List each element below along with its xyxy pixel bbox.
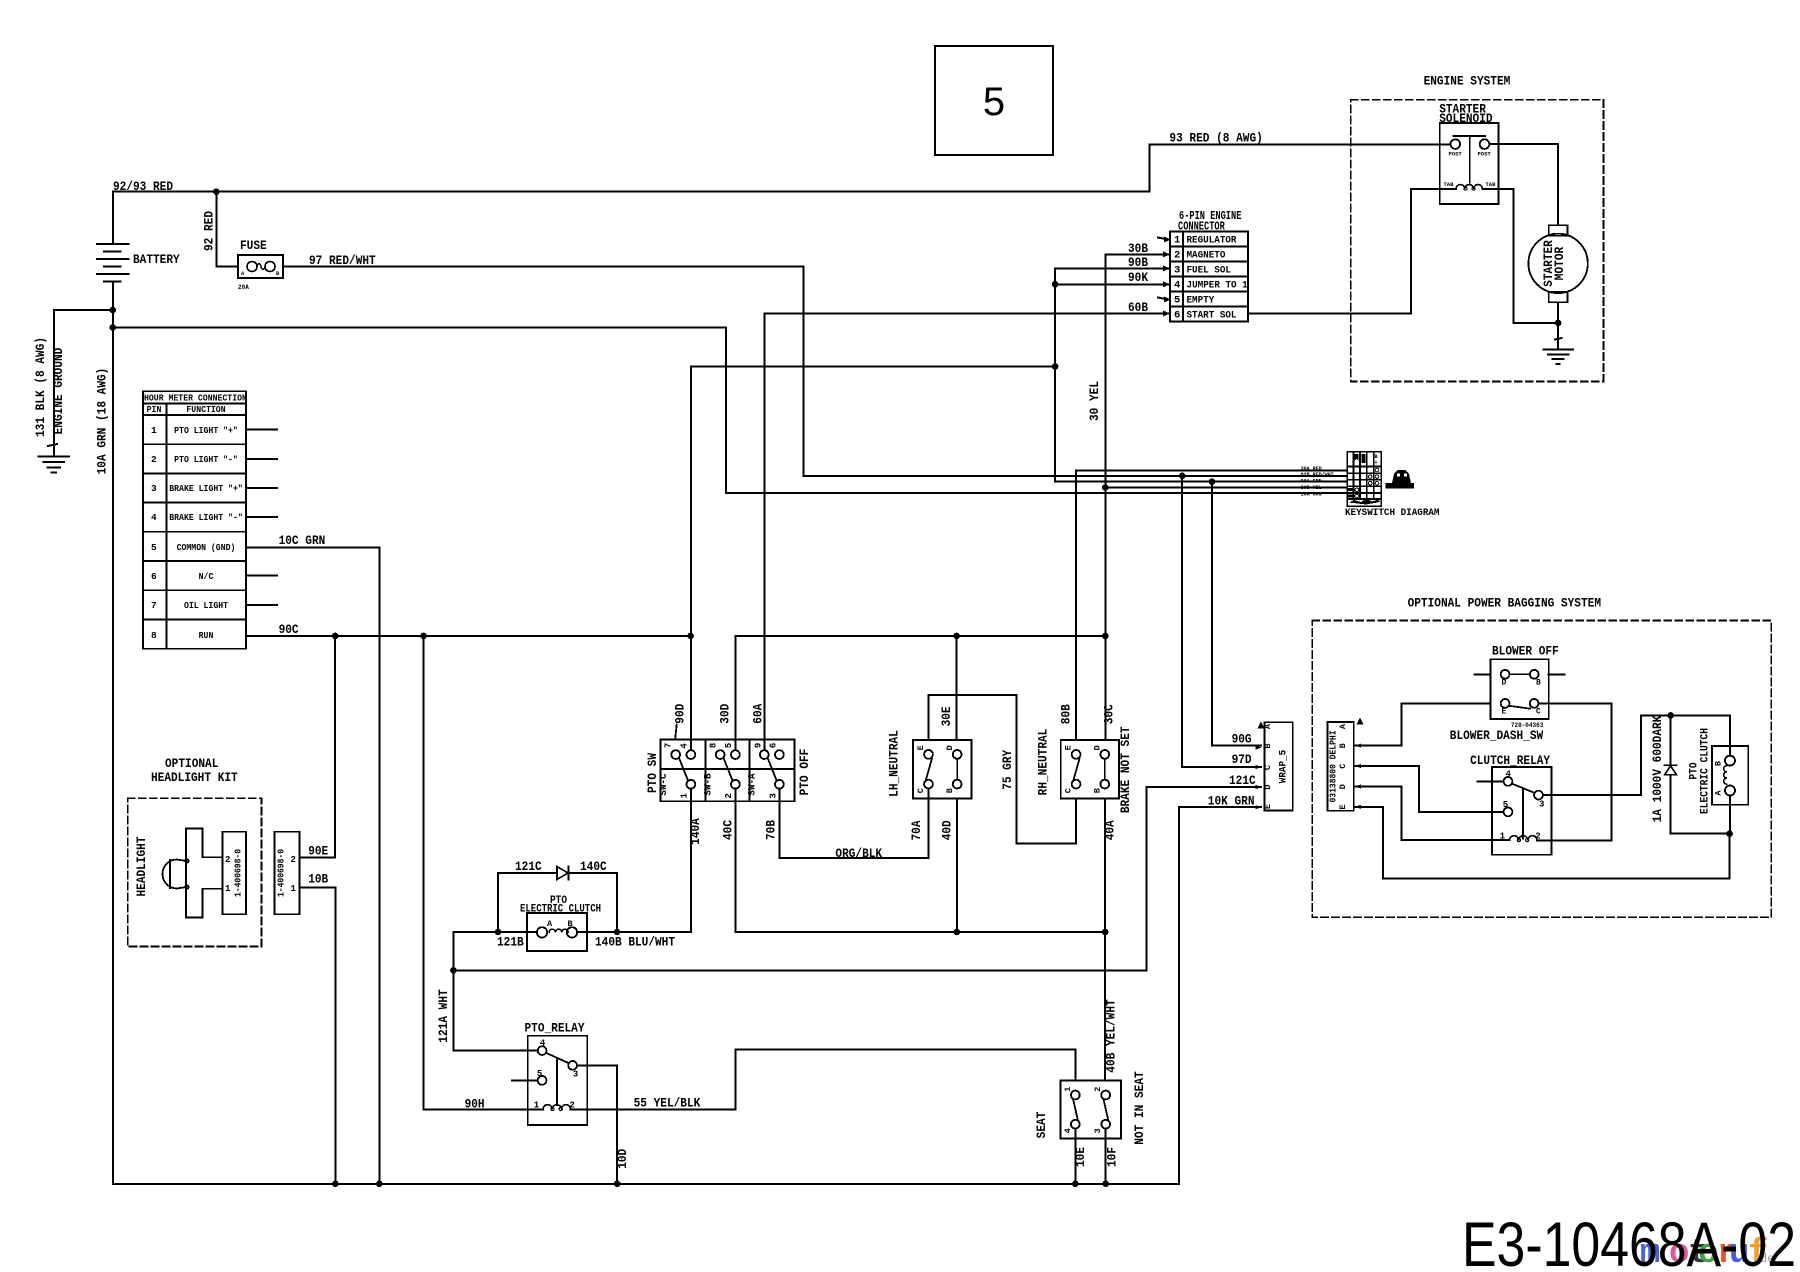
svg-text:BRAKE NOT SET: BRAKE NOT SET (1118, 726, 1133, 813)
svg-text:E: E (1064, 745, 1074, 750)
svg-text:REGULATOR: REGULATOR (1187, 235, 1238, 247)
headlight lamp DS1 (163, 829, 223, 918)
svg-text:BATTERY: BATTERY (133, 252, 180, 267)
wire 55 YEL/BLK (relay coil pin 2 to seat pin 1) (571, 1050, 1076, 1111)
wire 40A / 40B YEL/WHT (RH pin B down to seat pin 2) (1103, 798, 1119, 1080)
svg-text:121B: 121B (497, 935, 524, 950)
svg-text:5: 5 (1503, 800, 1508, 810)
wire 121A WHT (down to PTO relay pin 4) (436, 970, 538, 1050)
svg-text:B: B (1092, 788, 1102, 793)
node: keyswitch line3 junction 90G (1209, 478, 1216, 485)
svg-text:SW-C: SW-C (658, 773, 670, 796)
node: 90 net junction 90K (1052, 281, 1059, 288)
svg-text:1-400698-0: 1-400698-0 (234, 849, 244, 897)
battery B1 (97, 192, 129, 310)
svg-text:A: A (1714, 790, 1724, 796)
node: 90C junction to headlight 90E (332, 633, 339, 640)
PTO switch S1 assembly (661, 725, 795, 802)
engine system dashed enclosure (1351, 74, 1604, 382)
svg-text:90K: 90K (1128, 270, 1148, 285)
svg-text:30E: 30E (939, 706, 954, 726)
svg-text:BRAKE LIGHT "-": BRAKE LIGHT "-" (169, 512, 243, 523)
clutch relay K3 (1470, 753, 1552, 855)
wire 10B (headlight ground return) (300, 872, 336, 1184)
svg-text:92 RED: 92 RED (202, 211, 217, 251)
wire 92 RED (down to fuse) (202, 192, 239, 267)
svg-text:A: A (241, 270, 245, 277)
svg-text:2: 2 (724, 793, 734, 798)
svg-text:30 YEL: 30 YEL (1087, 381, 1102, 421)
svg-text:WRAP_5: WRAP_5 (1278, 750, 1290, 783)
key icon (1386, 470, 1415, 489)
svg-text:C: C (1536, 707, 1541, 716)
svg-text:4: 4 (1063, 1128, 1073, 1133)
node: 30 net junction at 30 YEL vertical (1102, 633, 1109, 640)
svg-text:30C: 30C (1101, 704, 1116, 724)
svg-text:TAB: TAB (1486, 181, 1497, 188)
svg-text:A: A (547, 919, 553, 929)
wire 60B into solenoid left TAB (1248, 189, 1440, 314)
svg-text:10A GRN (18 AWG): 10A GRN (18 AWG) (95, 368, 110, 475)
wire 140A (PTO SW pin1 to clutch) (688, 789, 703, 932)
svg-text:D: D (1338, 784, 1348, 789)
svg-text:N/C: N/C (199, 571, 214, 582)
svg-text:1: 1 (291, 884, 297, 894)
wire 90C (hour meter RUN) (246, 622, 691, 637)
svg-text:10F: 10F (1105, 1147, 1120, 1167)
fuse F1 20A (238, 238, 283, 291)
wire 30B / 30 YEL (engine connector pin2 to 30 net) (1087, 241, 1170, 636)
wire delphi D to clutch relay coil pin 1 (1354, 787, 1510, 840)
wire clutch B net to bagging clutch pin B (1671, 715, 1730, 756)
svg-text:1: 1 (151, 425, 157, 436)
svg-text:70B: 70B (764, 820, 779, 840)
svg-text:CLUTCH_RELAY: CLUTCH_RELAY (1470, 753, 1550, 768)
svg-text:5: 5 (151, 542, 157, 553)
wire 90K (engine connector pin4) (1055, 270, 1170, 285)
svg-text:4: 4 (151, 512, 157, 523)
wire delphi E to bagging clutch A (1354, 807, 1730, 879)
svg-text:90D: 90D (673, 704, 688, 724)
svg-text:POST: POST (1449, 151, 1463, 158)
wire 92/93 RED (battery + to fuse tee and engine) (113, 179, 1149, 194)
hour meter pin stubs (246, 430, 277, 605)
node: 40 net junction 40D (954, 929, 961, 936)
svg-text:FUNCTION: FUNCTION (186, 404, 225, 415)
svg-text:MAGNETO: MAGNETO (1187, 250, 1226, 262)
svg-text:SEAT: SEAT (1034, 1111, 1049, 1138)
svg-text:75 GRY: 75 GRY (1000, 750, 1015, 790)
node: battery minus junction to engine ground (110, 307, 117, 314)
svg-text:B: B (1536, 678, 1541, 687)
wire 40C (PTO SW pin2 to seat circuit) (721, 789, 1106, 932)
svg-text:6: 6 (768, 743, 778, 748)
wire 97D (keyswitch line to WRAP_5 pin C) (1182, 476, 1261, 767)
seat switch S4 (1061, 1080, 1121, 1138)
svg-text:8: 8 (151, 630, 157, 641)
svg-text:4: 4 (679, 743, 689, 749)
svg-text:121C: 121C (515, 859, 542, 874)
svg-text:START SOL: START SOL (1187, 310, 1237, 322)
svg-text:B: B (1714, 761, 1724, 766)
svg-text:TAB: TAB (1444, 181, 1455, 188)
svg-text:1A 1000V 600DARK: 1A 1000V 600DARK (1650, 715, 1665, 822)
node: bus junction 10F (1102, 1181, 1109, 1188)
svg-text:20A: 20A (238, 284, 249, 291)
svg-text:40D: 40D (940, 820, 955, 840)
svg-text:COMMON (GND): COMMON (GND) (177, 542, 236, 553)
wire 90B (engine connector pin3) (1055, 255, 1170, 270)
node: starter motor ground junction (1555, 320, 1562, 327)
svg-text:30B YEL: 30B YEL (1301, 485, 1322, 491)
wire battery minus down to ground bus (112, 310, 114, 1184)
wire 97 RED/WHT (fuse to keyswitch B) (283, 253, 1347, 476)
pin 5 stub arrow (1158, 297, 1171, 303)
ground (engine system) (1543, 349, 1573, 363)
wire 90B / 90K vertical to engine connector and keyswitch (1055, 268, 1347, 481)
wire 80B (RH pin E to keyswitch) (1059, 470, 1348, 740)
svg-text:+: + (1375, 460, 1378, 466)
svg-text:C: C (1263, 765, 1273, 770)
svg-text:E: E (916, 745, 926, 750)
svg-text:97D: 97D (1232, 752, 1252, 767)
wire 90E (run power to headlight) (300, 636, 336, 859)
optional power bagging system dashed enclosure (1312, 596, 1771, 918)
svg-text:2: 2 (225, 855, 230, 865)
sheet number box 5 (935, 46, 1053, 155)
wire 10D (relay pin 3 to ground bus) (577, 1065, 630, 1183)
svg-text:PTO LIGHT "+": PTO LIGHT "+" (174, 425, 238, 436)
starter solenoid K2 (1439, 102, 1498, 204)
wire 131 BLK engine ground (33, 310, 113, 457)
node: clutch B net junction at diode top (1667, 712, 1674, 719)
svg-text:3: 3 (573, 1070, 578, 1080)
svg-text:A: A (1338, 723, 1348, 729)
node: junction 92/93 RED at fuse branch (213, 188, 220, 195)
wire 30C (down to RH_NEUTRAL pin D) (1101, 636, 1116, 740)
optional headlight kit dashed enclosure (128, 756, 262, 947)
svg-text:5: 5 (983, 80, 1005, 124)
svg-text:ENGINE GROUND: ENGINE GROUND (51, 347, 66, 434)
svg-text:HEADLIGHT KIT: HEADLIGHT KIT (151, 770, 238, 785)
svg-text:2: 2 (151, 454, 157, 465)
svg-text:C: C (916, 788, 926, 793)
svg-text:4: 4 (1506, 770, 1512, 780)
wire 10C GRN (hour meter common to ground bus) (246, 533, 379, 1184)
svg-text:OIL LIGHT: OIL LIGHT (184, 600, 228, 611)
node: clutch A junction (495, 929, 502, 936)
svg-text:3: 3 (1093, 1128, 1103, 1133)
svg-text:A: A (1263, 723, 1273, 729)
node: bus junction 10C (376, 1181, 383, 1188)
svg-text:140B BLU/WHT: 140B BLU/WHT (595, 935, 675, 950)
svg-text:JUMPER TO 1: JUMPER TO 1 (1187, 280, 1248, 292)
LH_NEUTRAL switch S2 (913, 740, 971, 798)
svg-text:70A: 70A (909, 820, 924, 840)
svg-text:121C: 121C (1229, 773, 1256, 788)
6-pin engine connector J4 (1158, 210, 1248, 322)
svg-text:9: 9 (754, 743, 764, 748)
svg-text:BLOWER OFF: BLOWER OFF (1492, 644, 1559, 659)
PTO relay K1 (512, 1021, 587, 1125)
blower off switch S5 (1475, 644, 1565, 730)
svg-text:3: 3 (768, 793, 778, 798)
node: 30 net junction to LH_NEUTRAL 30E (953, 633, 960, 640)
svg-text:SW-B: SW-B (703, 773, 715, 796)
svg-text:PTO LIGHT "-": PTO LIGHT "-" (174, 454, 238, 465)
starter motor M1 (1528, 225, 1587, 302)
svg-text:POST: POST (1478, 151, 1492, 158)
wire 93 RED (8 AWG) to starter solenoid (1149, 131, 1450, 192)
svg-text:5: 5 (724, 743, 734, 748)
svg-text:6: 6 (151, 571, 157, 582)
svg-text:E: E (1338, 804, 1348, 809)
wire 30E (down to LH_NEUTRAL pin D) (939, 636, 957, 740)
node: bus junction 10D (614, 1181, 621, 1188)
svg-text:ENGINE SYSTEM: ENGINE SYSTEM (1424, 74, 1511, 89)
node: clutch B junction (614, 929, 621, 936)
pto electric clutch L2 (bagging) (1689, 728, 1749, 834)
wire 121B / 140B BLU/WHT (clutch leads) (453, 932, 691, 970)
wire keyswitch line4 (30 net to keyswitch) (1105, 487, 1347, 489)
svg-text:SW-A: SW-A (747, 773, 759, 796)
WRAP_5 connector J3 (1256, 722, 1293, 811)
svg-text:121A WHT: 121A WHT (436, 989, 451, 1043)
svg-text:KEYSWITCH DIAGRAM: KEYSWITCH DIAGRAM (1345, 507, 1440, 519)
svg-text:1: 1 (679, 793, 689, 799)
svg-text:FUSE: FUSE (240, 238, 267, 253)
svg-text:D: D (945, 745, 955, 750)
svg-text:93 RED (8 AWG): 93 RED (8 AWG) (1169, 131, 1262, 146)
node: keyswitch line2 junction 97D (1179, 473, 1186, 480)
svg-text:4: 4 (540, 1039, 546, 1049)
svg-text:1-400698-0: 1-400698-0 (277, 849, 287, 897)
svg-text:E: E (1263, 804, 1273, 809)
svg-text:3: 3 (151, 483, 157, 494)
svg-text:2: 2 (1174, 250, 1180, 262)
node: 121 net junction (450, 967, 457, 974)
node: bus junction 10B (332, 1181, 339, 1188)
node: bagging clutch A junction (1726, 830, 1733, 837)
svg-text:6: 6 (1174, 310, 1180, 322)
svg-text:1: 1 (1063, 1087, 1073, 1092)
wire 70B (PTO SW pin3) with ORG/BLK run (764, 789, 929, 862)
wire 75 GRY (LH pin E to RH pin C) (929, 695, 1077, 844)
wire 90G (keyswitch line to WRAP_5 pin B) (1212, 482, 1261, 747)
wire blower C to clutch relay coil pin 2 (1537, 703, 1611, 840)
svg-text:3: 3 (1539, 800, 1544, 810)
svg-text:FUEL SOL: FUEL SOL (1187, 265, 1232, 277)
node: 90C junction into 90D vertical (687, 633, 694, 640)
svg-text:BLOWER_DASH_SW: BLOWER_DASH_SW (1450, 728, 1544, 743)
svg-text:4: 4 (1174, 280, 1180, 292)
pin 1 stub arrow (1158, 237, 1171, 243)
diode CR2 1A 1000V 600DARK (1650, 715, 1730, 833)
ground (engine ground symbol) (38, 457, 69, 473)
wire starter motor to engine ground (1557, 302, 1559, 349)
wire delphi B to blower E (1354, 703, 1491, 745)
svg-text:HOUR METER CONNECTION: HOUR METER CONNECTION (144, 393, 247, 404)
svg-text:PTO OFF: PTO OFF (797, 748, 812, 795)
svg-text:D: D (1502, 678, 1507, 687)
svg-text:3: 3 (1174, 265, 1180, 277)
svg-text:10B: 10B (308, 872, 328, 887)
headlight connector J1 1-400698-0 (223, 832, 246, 914)
svg-text:D: D (1263, 784, 1273, 789)
wire 60B (to engine connector START SOL) (764, 300, 1170, 315)
svg-text:B: B (276, 270, 280, 277)
svg-text:5: 5 (1174, 295, 1180, 307)
svg-text:C: C (1338, 764, 1348, 769)
svg-text:B: B (945, 788, 955, 793)
delphi connector J5 03138800 (1328, 718, 1364, 811)
wire 90H (90C net to relay coil pin 1) (424, 636, 543, 1112)
diode CR1 (clutch suppression) with wires 121C / 140C (498, 859, 617, 932)
wire 60A (PTO SW pin9 up) (751, 314, 766, 751)
svg-text:10A GRN: 10A GRN (1301, 491, 1322, 497)
svg-text:E: E (1502, 707, 1507, 716)
svg-text:B: B (568, 919, 573, 929)
svg-text:30A RED: 30A RED (1301, 466, 1322, 472)
svg-text:8: 8 (708, 743, 718, 748)
svg-text:30D: 30D (718, 704, 733, 724)
svg-text:PIN: PIN (147, 404, 162, 415)
svg-text:OPTIONAL: OPTIONAL (165, 756, 219, 771)
wire 30D (PTO SW pin5 to 30 net) (718, 636, 1106, 750)
svg-text:EMPTY: EMPTY (1187, 295, 1215, 307)
svg-text:MOTOR: MOTOR (1552, 247, 1567, 281)
svg-text:10C GRN: 10C GRN (279, 533, 326, 548)
svg-text:92B RED/WHT: 92B RED/WHT (1301, 472, 1334, 478)
keyswitch bundle tiny wire labels (1301, 466, 1334, 498)
svg-text:BRAKE LIGHT "+": BRAKE LIGHT "+" (169, 483, 243, 494)
wire clutch relay pin 3 to clutch B net (1543, 715, 1671, 795)
svg-text:ELECTRIC CLUTCH: ELECTRIC CLUTCH (1700, 728, 1712, 814)
wire delphi C to clutch relay pin 5 (1354, 766, 1504, 812)
svg-text:131 BLK (8 AWG): 131 BLK (8 AWG) (33, 337, 48, 437)
RH_NEUTRAL switch S3 (1061, 740, 1119, 798)
svg-text:140C: 140C (580, 859, 607, 874)
svg-text:90C: 90C (279, 622, 299, 637)
wire 40D (LH pin B down to 40 net) (940, 798, 958, 932)
svg-text:B: B (1338, 743, 1348, 748)
svg-text:60A: 60A (751, 704, 766, 724)
svg-text:OPTIONAL POWER BAGGING SYSTEM: OPTIONAL POWER BAGGING SYSTEM (1408, 596, 1602, 611)
svg-text:NOT IN SEAT: NOT IN SEAT (1132, 1071, 1147, 1145)
svg-text:HEADLIGHT: HEADLIGHT (134, 836, 149, 896)
svg-text:PTO_RELAY: PTO_RELAY (525, 1021, 585, 1036)
wire solenoid right post to starter motor (1489, 144, 1558, 225)
wire 121C (to WRAP_5 pin D) (453, 773, 1260, 970)
node: battery minus junction to keyswitch ground line (110, 324, 117, 331)
wire solenoid right TAB to starter motor minus (1499, 189, 1554, 323)
svg-text:7: 7 (151, 600, 157, 611)
node: bus junction 10E (1072, 1181, 1079, 1188)
svg-text:80B: 80B (1059, 704, 1074, 724)
wire 10E (seat pin 4 to ground bus) (1073, 1129, 1088, 1184)
svg-text:7: 7 (663, 743, 673, 748)
PTO electric clutch L1 (520, 895, 601, 951)
node: junction 90 net at 90B/90K drop (1052, 363, 1059, 370)
svg-text:90G: 90G (1232, 732, 1252, 747)
ground bus wire 10K GRN (113, 794, 1261, 1184)
hour meter connection table (143, 391, 246, 649)
svg-text:E3-10468A-02: E3-10468A-02 (1462, 1210, 1796, 1272)
headlight mating connector J2 1-400698-0 (275, 832, 300, 914)
svg-text:LH_NEUTRAL: LH_NEUTRAL (887, 730, 902, 797)
svg-text:90A GRN: 90A GRN (1301, 479, 1322, 485)
svg-text:C: C (1064, 788, 1074, 793)
svg-text:2: 2 (1093, 1087, 1103, 1092)
svg-text:B: B (1263, 743, 1273, 748)
svg-text:RH_NEUTRAL: RH_NEUTRAL (1035, 728, 1050, 795)
svg-text:2: 2 (291, 855, 296, 865)
svg-text:03138800 DELPHI: 03138800 DELPHI (1329, 731, 1339, 803)
svg-text:RUN: RUN (199, 630, 214, 641)
svg-text:1: 1 (1174, 235, 1180, 247)
svg-text:1: 1 (225, 884, 231, 894)
wire battery to keyswitch M line (10/90 net) (95, 328, 1348, 494)
wire 10F (seat pin 3 to ground bus) (1105, 1129, 1120, 1184)
svg-text:D: D (1092, 745, 1102, 750)
wire 90D (RUN net to PTO SW pin4 and engine connector) (673, 367, 1056, 751)
svg-text:5: 5 (537, 1069, 542, 1079)
watermark motoruf.de (1640, 1235, 1774, 1272)
svg-text:55 YEL/BLK: 55 YEL/BLK (634, 1096, 701, 1111)
node: 30 YEL junction on keyswitch line4 (1102, 484, 1109, 491)
svg-text:90E: 90E (308, 844, 328, 859)
svg-text:40C: 40C (721, 820, 736, 840)
node: 40 net junction into 40A vertical (1102, 929, 1109, 936)
keyswitch diagram block (1345, 452, 1440, 519)
node: 90C junction to 90H relay feed (420, 633, 427, 640)
